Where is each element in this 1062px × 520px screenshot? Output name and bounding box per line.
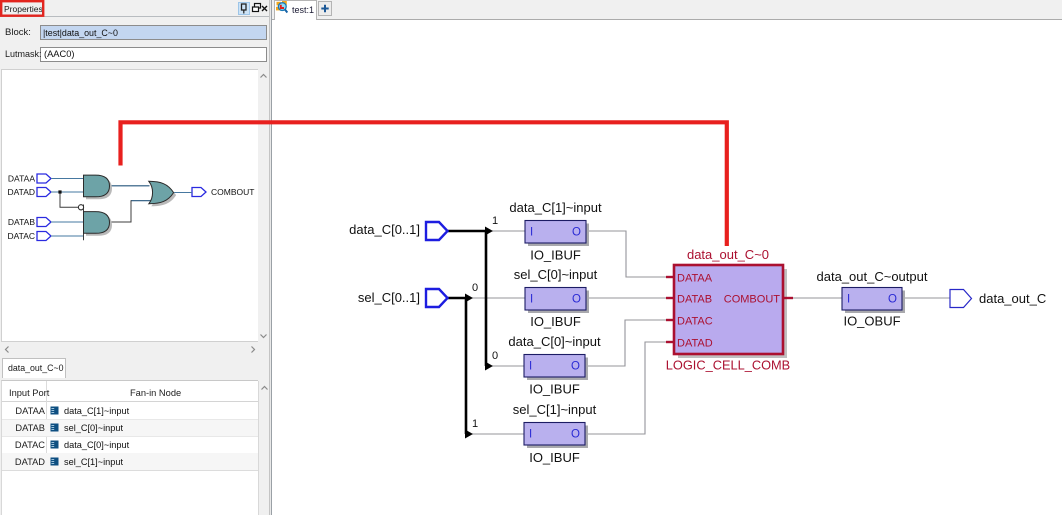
svg-text:IO_IBUF: IO_IBUF (530, 248, 581, 263)
svg-text:DATAC: DATAC (7, 231, 35, 241)
svg-text:O: O (571, 361, 580, 373)
svg-text:data_out_C~0: data_out_C~0 (687, 247, 769, 262)
svg-text:DATAD: DATAD (7, 187, 35, 197)
svg-text:O: O (572, 227, 581, 239)
svg-text:I: I (847, 294, 850, 306)
svg-text:0: 0 (472, 282, 478, 294)
svg-text:DATAC: DATAC (677, 316, 713, 328)
svg-text:data_out_C: data_out_C (979, 291, 1046, 306)
svg-text:O: O (888, 294, 897, 306)
svg-text:data_C[0..1]: data_C[0..1] (349, 222, 420, 237)
svg-text:O: O (572, 294, 581, 306)
svg-text:data_out_C~output: data_out_C~output (817, 269, 928, 284)
svg-text:I: I (529, 429, 532, 441)
svg-text:O: O (571, 429, 580, 441)
svg-text:data_C[1]~input: data_C[1]~input (509, 200, 602, 215)
svg-text:DATAA: DATAA (8, 174, 35, 184)
svg-text:LOGIC_CELL_COMB: LOGIC_CELL_COMB (666, 358, 790, 373)
svg-text:1: 1 (472, 418, 478, 430)
svg-text:COMBOUT: COMBOUT (724, 294, 781, 306)
svg-text:DATAA: DATAA (677, 273, 713, 285)
svg-text:I: I (530, 294, 533, 306)
svg-text:sel_C[0..1]: sel_C[0..1] (358, 290, 420, 305)
svg-text:data_C[0]~input: data_C[0]~input (508, 334, 601, 349)
svg-text:DATAB: DATAB (677, 294, 712, 306)
svg-text:IO_IBUF: IO_IBUF (529, 450, 580, 465)
svg-text:IO_IBUF: IO_IBUF (529, 382, 580, 397)
svg-text:I: I (529, 361, 532, 373)
svg-text:0: 0 (492, 350, 498, 362)
svg-text:DATAD: DATAD (677, 338, 713, 350)
svg-text:COMBOUT: COMBOUT (211, 187, 254, 197)
svg-text:DATAB: DATAB (8, 217, 35, 227)
svg-text:sel_C[1]~input: sel_C[1]~input (513, 402, 597, 417)
svg-text:I: I (530, 227, 533, 239)
svg-text:IO_OBUF: IO_OBUF (843, 314, 900, 329)
svg-text:1: 1 (492, 215, 498, 227)
svg-text:IO_IBUF: IO_IBUF (530, 314, 581, 329)
svg-text:sel_C[0]~input: sel_C[0]~input (514, 267, 598, 282)
